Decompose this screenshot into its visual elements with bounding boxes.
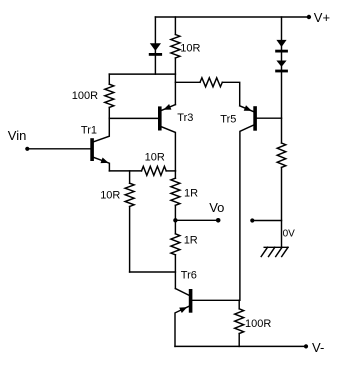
- resistor (unlabeled, Tr5 emitter feed): [200, 78, 222, 87]
- svg-text:V-: V-: [312, 340, 324, 355]
- resistor 100R lower: [235, 309, 244, 334]
- wire: [166, 170, 175, 172]
- wire emitter row: [109, 170, 141, 172]
- svg-text:10R: 10R: [180, 42, 200, 54]
- svg-text:10R: 10R: [100, 189, 120, 201]
- wire: [238, 300, 240, 309]
- svg-text:1R: 1R: [184, 187, 198, 199]
- wire: [174, 17, 176, 35]
- transistor Tr3: [158, 106, 162, 130]
- resistor 10R top: [171, 35, 180, 59]
- wire: [175, 81, 200, 83]
- Tr1 emitter arrow (NPN): [101, 158, 109, 164]
- svg-text:Tr5: Tr5: [220, 113, 236, 125]
- wire 0V row: [252, 220, 281, 222]
- wire Tr5 base row: [257, 117, 282, 119]
- svg-text:V+: V+: [314, 10, 330, 25]
- wire Tr1 emitter: [94, 157, 110, 171]
- wire Tr5 emitter lead: [240, 106, 254, 112]
- resistor 1R lower: [171, 234, 180, 255]
- Tr6 emitter arrow (PNP, points to bar): [179, 307, 187, 313]
- terminal Vo: [216, 218, 221, 223]
- wire node A row: [109, 73, 175, 75]
- wire V+ rail: [155, 16, 309, 18]
- svg-text:Vin: Vin: [8, 128, 27, 143]
- resistor 10R lower-left: [125, 183, 134, 206]
- diode D2: [276, 40, 286, 47]
- wire: [174, 171, 176, 220]
- svg-text:0V: 0V: [283, 229, 296, 240]
- wire: [222, 82, 239, 106]
- svg-text:10R: 10R: [145, 152, 165, 164]
- wire Vo row: [175, 219, 218, 221]
- node Vo junction: [173, 218, 177, 222]
- wire Tr1 collector: [94, 118, 110, 141]
- wire: [108, 107, 110, 118]
- svg-text:1R: 1R: [184, 234, 198, 246]
- svg-text:Tr6: Tr6: [181, 269, 197, 281]
- svg-text:Tr3: Tr3: [177, 112, 193, 124]
- wire right branch lower: [281, 167, 283, 247]
- svg-text:Vo: Vo: [209, 200, 224, 215]
- wire V- rail: [175, 345, 306, 347]
- wire / diode D1 branch: [154, 17, 156, 74]
- resistor (unlabeled, right): [277, 143, 286, 167]
- wire Vin to Tr1 base: [27, 148, 90, 150]
- wire: [174, 255, 176, 289]
- wire Tr3 collector: [162, 127, 176, 171]
- resistor 100R upper: [105, 84, 114, 107]
- Tr3 emitter arrow (PNP, points to bar): [163, 104, 171, 110]
- svg-text:Tr1: Tr1: [81, 124, 97, 136]
- wire node B to Tr3 base: [109, 117, 158, 119]
- terminal V-: [304, 344, 308, 348]
- wire: [238, 334, 240, 347]
- terminal Vin: [25, 147, 29, 151]
- svg-text:100R: 100R: [245, 318, 271, 330]
- wire right branch upper: [281, 17, 283, 143]
- resistor 10R mid horizontal: [142, 166, 167, 175]
- terminal 0V: [250, 218, 254, 222]
- diode D3: [276, 61, 286, 67]
- wire lower-left row: [130, 271, 176, 273]
- svg-text:100R: 100R: [72, 90, 98, 102]
- wire: [174, 220, 176, 234]
- diode D1: [150, 43, 161, 51]
- transistor Tr5: [253, 106, 257, 131]
- resistor 1R upper: [171, 178, 180, 205]
- wire: [129, 171, 131, 183]
- terminal V+: [307, 15, 311, 19]
- wire: [108, 74, 110, 84]
- wire: [129, 207, 131, 273]
- wire Tr6 collector lead: [175, 289, 188, 296]
- wire: [174, 58, 176, 105]
- wire Tr6 emitter: [175, 306, 189, 346]
- transistor Tr1: [90, 138, 94, 161]
- ground symbol: [264, 246, 288, 248]
- wire Tr6 base row: [192, 299, 239, 301]
- Tr5 emitter arrow (PNP, points to bar): [244, 105, 252, 111]
- transistor Tr6: [189, 289, 193, 313]
- wire Tr3 emitter lead: [162, 105, 176, 111]
- wire Tr5 collector: [240, 125, 253, 300]
